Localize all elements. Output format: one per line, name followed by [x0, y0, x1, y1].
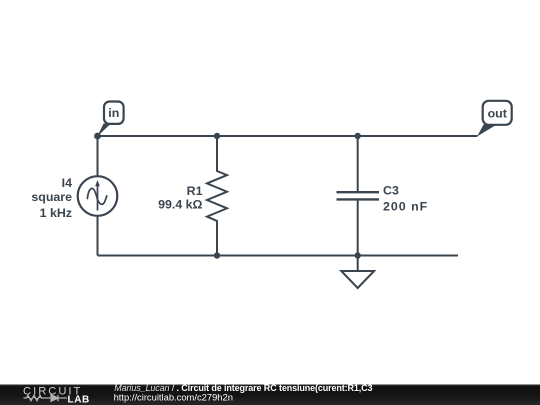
- node junction top capacitor: [355, 133, 361, 139]
- node junction bottom resistor: [214, 252, 220, 258]
- net label in: [94, 102, 124, 140]
- footer logo schematic squiggle: [24, 395, 68, 402]
- svg-text:200 nF: 200 nF: [383, 199, 428, 213]
- capacitor C3: [337, 136, 380, 256]
- svg-text:C3: C3: [383, 183, 399, 197]
- svg-text:http://circuitlab.com/c279h2n: http://circuitlab.com/c279h2n: [114, 391, 233, 402]
- svg-text:LAB: LAB: [68, 394, 90, 405]
- value label C3 200 nF: [383, 183, 428, 213]
- svg-text:I4: I4: [62, 176, 72, 190]
- value label R1 99.4 kOhm: [158, 184, 202, 212]
- svg-text:square: square: [31, 190, 72, 204]
- net label out: [477, 101, 512, 137]
- value label I4 square 1 kHz: [31, 176, 72, 220]
- ground: [341, 256, 374, 289]
- svg-text:1 kHz: 1 kHz: [40, 206, 72, 220]
- wire bottom horizontal ground net: [98, 255, 459, 257]
- node junction top resistor: [214, 133, 220, 139]
- svg-text:R1: R1: [187, 184, 203, 198]
- wire top horizontal net in-out: [98, 135, 478, 137]
- svg-text:99.4 kΩ: 99.4 kΩ: [158, 197, 202, 211]
- current source I4: [78, 176, 118, 216]
- footer bar: [0, 385, 540, 405]
- node junction bottom capacitor: [355, 252, 361, 258]
- wire left vertical source top lead: [97, 136, 99, 176]
- wire left vertical source bottom lead: [97, 216, 99, 256]
- resistor R1: [207, 136, 227, 256]
- svg-text:in: in: [108, 106, 119, 120]
- svg-text:out: out: [488, 106, 507, 120]
